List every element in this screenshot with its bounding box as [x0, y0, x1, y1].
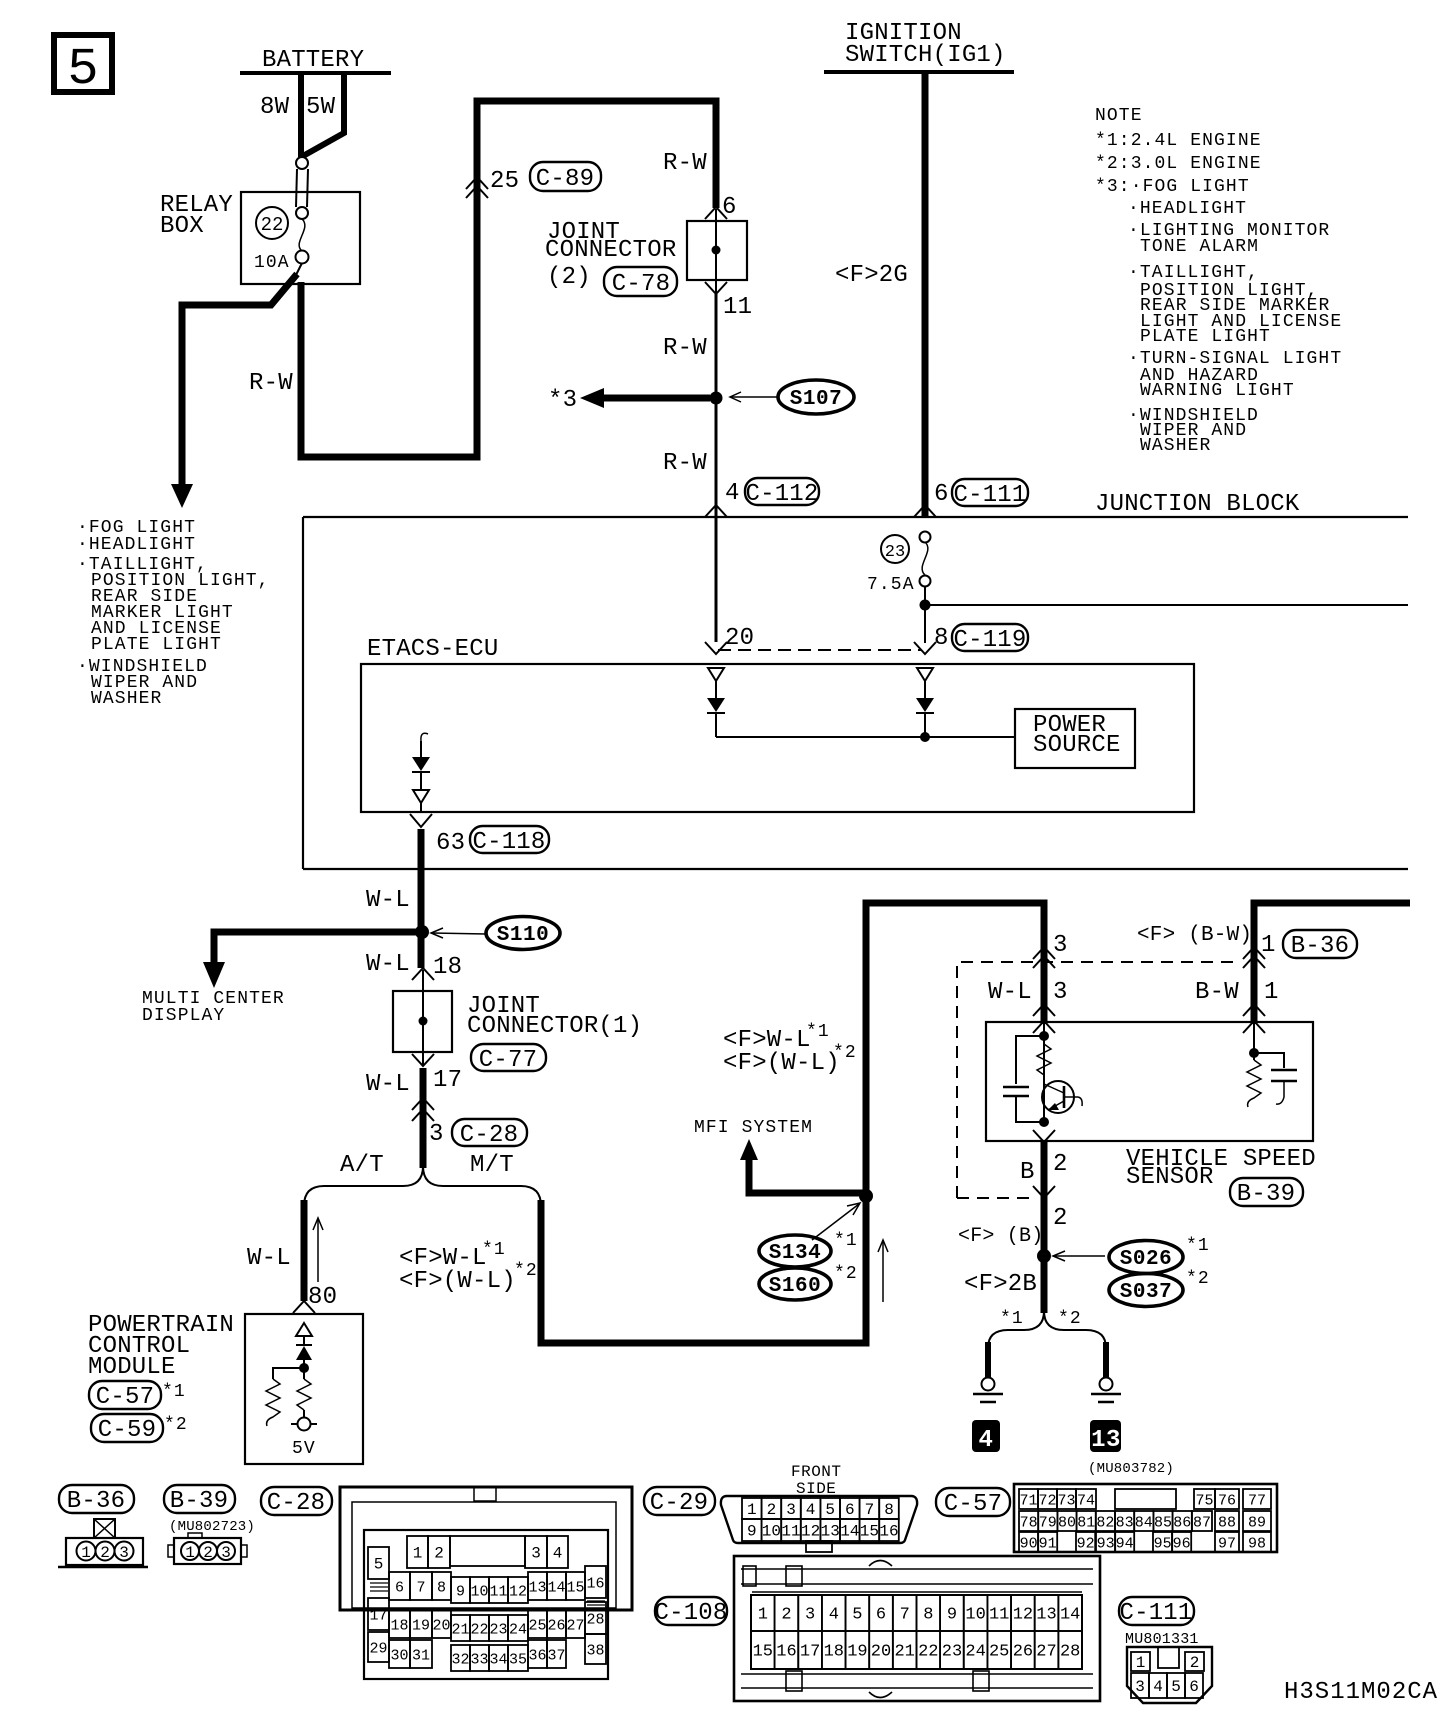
svg-text:81: 81 — [1077, 1515, 1095, 1532]
svg-text:*2: *2 — [164, 1415, 188, 1435]
svg-text:8: 8 — [934, 625, 949, 652]
chevron out of sensor bottom — [1033, 1130, 1055, 1142]
svg-text:26: 26 — [547, 1618, 565, 1635]
svg-text:6: 6 — [845, 1501, 855, 1519]
svg-text:WASHER: WASHER — [91, 689, 162, 709]
svg-text:13: 13 — [528, 1580, 546, 1597]
svg-text:*2: *2 — [833, 1043, 857, 1063]
connector stadium C-89 — [530, 162, 601, 191]
svg-text:PLATE LIGHT: PLATE LIGHT — [1140, 327, 1271, 347]
sensor transistor — [1042, 1081, 1082, 1113]
svg-text:5: 5 — [825, 1501, 835, 1519]
svg-text:B-36: B-36 — [1291, 933, 1349, 960]
svg-text:<F>(W-L): <F>(W-L) — [723, 1050, 840, 1077]
svg-text:25: 25 — [490, 168, 519, 195]
svg-text:3: 3 — [1053, 932, 1068, 959]
svg-text:MODULE: MODULE — [88, 1354, 176, 1381]
svg-text:9: 9 — [456, 1584, 465, 1601]
ground symbol right — [1100, 1378, 1113, 1391]
svg-text:27: 27 — [1036, 1643, 1056, 1662]
connector stadium C-29 — [644, 1487, 715, 1515]
svg-text:3: 3 — [531, 1545, 541, 1563]
svg-text:B-W: B-W — [1195, 979, 1239, 1006]
svg-text:W-L: W-L — [988, 979, 1032, 1006]
connector stadium C-57 — [89, 1381, 161, 1409]
power source box — [1015, 709, 1135, 768]
svg-text:14: 14 — [547, 1580, 565, 1597]
ETACS-ECU box — [361, 664, 1194, 812]
chevron inside sensor W-L — [1033, 1021, 1055, 1033]
svg-text:14: 14 — [1060, 1606, 1080, 1625]
chevron into PCM — [293, 1301, 315, 1313]
splice S037 oval — [1109, 1274, 1183, 1307]
fuse 23 wavy element — [922, 542, 928, 575]
svg-text:W-L: W-L — [366, 951, 410, 978]
svg-text:*1: *1 — [482, 1240, 506, 1260]
svg-text:B-39: B-39 — [1237, 1181, 1295, 1208]
arrow into ETACS pin 20 — [705, 642, 727, 654]
svg-text:R-W: R-W — [249, 370, 293, 397]
svg-text:·TAILLIGHT,: ·TAILLIGHT, — [1128, 263, 1259, 283]
svg-text:17: 17 — [800, 1643, 820, 1662]
joint connector 2 box — [687, 221, 747, 280]
svg-text:23: 23 — [942, 1643, 962, 1662]
double chevrons at dashed boundary B-W — [1243, 947, 1265, 968]
svg-text:C-57: C-57 — [96, 1384, 154, 1411]
fuse number circle 22 — [256, 207, 288, 239]
svg-text:3: 3 — [786, 1501, 796, 1519]
svg-text:73: 73 — [1057, 1493, 1075, 1510]
svg-text:2: 2 — [434, 1545, 444, 1563]
svg-text:1: 1 — [1264, 979, 1279, 1006]
svg-text:6: 6 — [876, 1606, 886, 1625]
svg-text:79: 79 — [1039, 1515, 1057, 1532]
C-28 pin cells — [368, 1536, 606, 1671]
svg-text:80: 80 — [308, 1284, 337, 1311]
svg-text:13: 13 — [821, 1523, 840, 1541]
wire ignition IG1 — [922, 72, 929, 518]
connector stadium C-108 — [655, 1597, 727, 1625]
svg-text:31: 31 — [412, 1648, 430, 1665]
svg-text:·HEADLIGHT: ·HEADLIGHT — [77, 535, 196, 555]
connector stadium C-78 — [604, 267, 677, 296]
svg-text:1: 1 — [747, 1501, 757, 1519]
PCM internal pull-up circuit — [266, 1323, 317, 1459]
svg-text:71: 71 — [1019, 1493, 1037, 1510]
svg-text:CONNECTOR(1): CONNECTOR(1) — [467, 1013, 642, 1040]
svg-text:S107: S107 — [790, 388, 842, 411]
svg-text:84: 84 — [1135, 1515, 1153, 1532]
svg-text:*1:2.4L ENGINE: *1:2.4L ENGINE — [1095, 131, 1262, 151]
svg-text:5: 5 — [67, 40, 98, 99]
svg-text:6: 6 — [395, 1580, 404, 1597]
ground reference square 13 — [1090, 1420, 1121, 1452]
joint connector 1 internal wire — [422, 970, 424, 1066]
svg-text:28: 28 — [586, 1612, 604, 1629]
svg-text:<F>2G: <F>2G — [835, 262, 908, 289]
svg-text:·HEADLIGHT: ·HEADLIGHT — [1128, 199, 1247, 219]
sensor capacitor left branch — [1016, 1036, 1044, 1084]
wire R-W from joint connector to junction block — [715, 294, 718, 642]
svg-text:89: 89 — [1248, 1515, 1266, 1532]
svg-text:36: 36 — [528, 1648, 546, 1665]
svg-text:R-W: R-W — [663, 450, 707, 477]
svg-text:2: 2 — [781, 1606, 791, 1625]
connector stadium B-36 bottom — [59, 1485, 134, 1513]
svg-text:3: 3 — [1053, 979, 1068, 1006]
wire to multi center display — [214, 932, 416, 964]
svg-text:C-111: C-111 — [1119, 1600, 1192, 1627]
svg-text:S026: S026 — [1120, 1248, 1172, 1271]
svg-text:28: 28 — [1060, 1643, 1080, 1662]
svg-text:15: 15 — [753, 1643, 773, 1662]
ground stub wire right — [1103, 1342, 1109, 1377]
fusible link bottom circle — [296, 207, 308, 219]
svg-text:C-78: C-78 — [612, 271, 670, 298]
svg-text:*2:3.0L ENGINE: *2:3.0L ENGINE — [1095, 154, 1262, 174]
svg-text:10: 10 — [762, 1523, 781, 1541]
svg-text:*2: *2 — [1058, 1309, 1082, 1329]
fusible link connector top circle — [296, 157, 308, 169]
svg-text:4: 4 — [829, 1606, 839, 1625]
splice S026 oval — [1109, 1241, 1183, 1274]
connector stadium C-28 bottom — [261, 1487, 332, 1515]
diode to pin 63 output — [412, 733, 430, 812]
svg-text:20: 20 — [432, 1618, 450, 1635]
chevron R-W wire crossing junction block — [705, 505, 727, 517]
svg-text:R-W: R-W — [663, 150, 707, 177]
svg-text:S160: S160 — [769, 1275, 821, 1298]
svg-text:2: 2 — [1053, 1205, 1068, 1232]
ground stub wire left — [985, 1342, 991, 1377]
A/T branch curve — [304, 1166, 423, 1206]
sensor internal left: wire — [1043, 1024, 1045, 1122]
svg-text:<F>2B: <F>2B — [964, 1271, 1037, 1298]
svg-text:90: 90 — [1020, 1536, 1038, 1553]
svg-text:27: 27 — [566, 1618, 584, 1635]
svg-text:78: 78 — [1020, 1515, 1038, 1532]
svg-text:1: 1 — [1136, 1654, 1146, 1672]
svg-text:(2): (2) — [547, 264, 591, 291]
svg-text:21: 21 — [451, 1622, 469, 1639]
svg-text:2: 2 — [767, 1501, 777, 1519]
fuse 23 top circle — [920, 532, 931, 543]
svg-text:2: 2 — [100, 1544, 110, 1562]
diode from pin 20 — [707, 668, 725, 737]
svg-text:24: 24 — [965, 1643, 985, 1662]
svg-text:C-59: C-59 — [98, 1417, 156, 1444]
splice S107 oval — [778, 380, 854, 414]
connector C-29 face view — [721, 1496, 917, 1552]
svg-text:12: 12 — [1013, 1606, 1033, 1625]
wire battery 8W drop — [298, 73, 304, 157]
svg-text:R-W: R-W — [663, 335, 707, 362]
svg-text:*2: *2 — [834, 1264, 858, 1284]
ground reference square 4 — [972, 1420, 1000, 1452]
svg-text:C-29: C-29 — [650, 1490, 708, 1517]
svg-text:SWITCH(IG1): SWITCH(IG1) — [845, 42, 1006, 69]
connector C-28 face view — [340, 1487, 632, 1679]
svg-text:20: 20 — [871, 1643, 891, 1662]
svg-text:C-118: C-118 — [472, 829, 545, 856]
svg-text:1: 1 — [413, 1545, 423, 1563]
svg-text:26: 26 — [1013, 1643, 1033, 1662]
svg-text:18: 18 — [390, 1618, 408, 1635]
chevron into sensor B-W — [1243, 1004, 1265, 1016]
svg-text:6: 6 — [1189, 1678, 1199, 1696]
svg-text:37: 37 — [547, 1648, 565, 1665]
svg-text:7: 7 — [865, 1501, 875, 1519]
svg-text:20: 20 — [725, 625, 754, 652]
svg-text:4: 4 — [1153, 1678, 1163, 1696]
svg-text:23: 23 — [885, 543, 905, 562]
MFI system stub wire — [740, 1139, 758, 1160]
relay box outline — [241, 192, 360, 284]
svg-text:NOTE: NOTE — [1095, 106, 1143, 126]
svg-text:*3:·FOG LIGHT: *3:·FOG LIGHT — [1095, 177, 1250, 197]
svg-text:BATTERY: BATTERY — [262, 47, 364, 74]
svg-text:<F> (B-W): <F> (B-W) — [1137, 924, 1252, 947]
connector stadium C-118 — [470, 826, 549, 853]
svg-text:76: 76 — [1218, 1493, 1236, 1510]
svg-text:7: 7 — [416, 1580, 425, 1597]
svg-text:S037: S037 — [1120, 1281, 1172, 1304]
chevron out of ETACS pin 63 — [410, 814, 432, 827]
arrow from S134 to splice — [812, 1204, 859, 1240]
svg-text:13: 13 — [1091, 1427, 1121, 1454]
svg-text:8W: 8W — [260, 94, 290, 121]
wire W-L A/T branch — [301, 1200, 308, 1301]
svg-text:3: 3 — [429, 1121, 444, 1148]
battery bus line — [240, 71, 391, 75]
connector stadium B-36 — [1283, 930, 1357, 958]
svg-text:1: 1 — [1261, 932, 1276, 959]
svg-text:3: 3 — [805, 1606, 815, 1625]
svg-text:S134: S134 — [769, 1242, 821, 1265]
svg-text:34: 34 — [489, 1652, 507, 1669]
double chevrons at dashed boundary W-L — [1033, 947, 1055, 968]
svg-text:16: 16 — [586, 1576, 604, 1593]
svg-text:72: 72 — [1038, 1493, 1056, 1510]
svg-text:MFI SYSTEM: MFI SYSTEM — [694, 1118, 813, 1138]
splice junction dot B wire — [1037, 1249, 1051, 1263]
svg-text:<F>(W-L): <F>(W-L) — [399, 1268, 516, 1295]
joint connector 2 internal wire — [715, 209, 717, 294]
diode from pin 8 — [916, 668, 934, 737]
chevron inside sensor B-W — [1243, 1021, 1265, 1033]
svg-text:C-28: C-28 — [460, 1122, 518, 1149]
svg-text:93: 93 — [1097, 1536, 1115, 1553]
svg-text:22: 22 — [261, 214, 284, 236]
direction arrow A/T — [317, 1220, 319, 1282]
svg-text:5: 5 — [852, 1606, 862, 1625]
svg-text:C-57: C-57 — [944, 1491, 1002, 1518]
svg-text:3: 3 — [221, 1544, 231, 1562]
svg-text:ETACS-ECU: ETACS-ECU — [367, 636, 498, 663]
svg-text:C-112: C-112 — [745, 481, 818, 508]
svg-text:13: 13 — [1036, 1606, 1056, 1625]
svg-text:4: 4 — [553, 1545, 563, 1563]
svg-text:*1: *1 — [1000, 1309, 1024, 1329]
svg-text:16: 16 — [776, 1643, 796, 1662]
svg-text:10: 10 — [965, 1606, 985, 1625]
svg-text:PLATE LIGHT: PLATE LIGHT — [91, 635, 222, 655]
svg-text:30: 30 — [390, 1648, 408, 1665]
svg-text:19: 19 — [847, 1643, 867, 1662]
splice node S107 junction dot — [710, 392, 723, 405]
fuse 23 bottom circle — [920, 576, 931, 587]
sensor resistor right — [1247, 1060, 1261, 1107]
svg-text:BOX: BOX — [160, 213, 204, 240]
sensor resistor left — [1037, 1044, 1051, 1075]
svg-text:18: 18 — [824, 1643, 844, 1662]
svg-text:85: 85 — [1154, 1515, 1172, 1532]
svg-text:97: 97 — [1218, 1536, 1236, 1553]
svg-text:DISPLAY: DISPLAY — [142, 1006, 225, 1026]
connector stadium B-39 — [1230, 1178, 1303, 1206]
svg-text:3: 3 — [1135, 1678, 1145, 1696]
wire from fuse to fog-light feed — [296, 263, 302, 275]
svg-text:6: 6 — [934, 481, 949, 508]
fog light load list — [77, 518, 270, 709]
page number box 5 — [54, 35, 112, 99]
svg-text:18: 18 — [433, 954, 462, 981]
connector stadium C-59 — [91, 1414, 163, 1442]
svg-text:14: 14 — [840, 1523, 859, 1541]
svg-text:80: 80 — [1058, 1515, 1076, 1532]
svg-text:SOURCE: SOURCE — [1033, 732, 1121, 759]
arrow into ETACS pin 8 — [914, 642, 936, 654]
direction arrow M/T — [882, 1242, 884, 1302]
wire B below sensor — [1041, 1141, 1048, 1313]
svg-text:C-119: C-119 — [953, 627, 1026, 654]
splice S160 oval — [759, 1268, 831, 1300]
svg-text:2: 2 — [203, 1544, 213, 1562]
svg-text:8: 8 — [923, 1606, 933, 1625]
svg-text:10A: 10A — [254, 253, 290, 273]
svg-text:5V: 5V — [292, 1439, 316, 1459]
connector stadium C-111 bottom — [1119, 1597, 1194, 1625]
wire B-W top run — [1254, 903, 1410, 1024]
svg-text:95: 95 — [1154, 1536, 1172, 1553]
junction block outline — [303, 516, 1408, 518]
svg-text:2: 2 — [1190, 1654, 1200, 1672]
connector stadium C-57 bottom — [936, 1488, 1010, 1516]
svg-text:98: 98 — [1248, 1536, 1266, 1553]
ground symbol left — [982, 1378, 995, 1391]
svg-text:5: 5 — [374, 1556, 384, 1574]
svg-text:*1: *1 — [806, 1022, 830, 1042]
connector stadium C-111 — [952, 479, 1028, 506]
connector stadium B-39 bottom — [164, 1485, 235, 1513]
svg-text:*3: *3 — [548, 387, 577, 414]
chevron into joint connector 2 — [705, 207, 727, 219]
svg-text:75: 75 — [1195, 1493, 1213, 1510]
dashed wire inside junction block — [718, 649, 921, 651]
svg-text:4: 4 — [725, 480, 740, 507]
svg-text:A/T: A/T — [340, 1152, 384, 1179]
svg-text:22: 22 — [470, 1622, 488, 1639]
svg-text:3: 3 — [119, 1544, 129, 1562]
chevron into joint connector 1 — [412, 968, 434, 980]
svg-text:CONNECTOR: CONNECTOR — [545, 237, 676, 264]
wire M/T branch long run — [541, 903, 1044, 1343]
wire joining diodes to power source — [716, 736, 1015, 738]
svg-text:(MU802723): (MU802723) — [169, 1519, 255, 1535]
svg-text:15: 15 — [860, 1523, 879, 1541]
svg-text:C-111: C-111 — [953, 482, 1026, 509]
arrowhead fog-light feed — [171, 484, 193, 508]
svg-text:77: 77 — [1248, 1493, 1266, 1510]
chevron out of joint connector 1 — [412, 1054, 434, 1066]
junction dot on IG1 branch — [920, 600, 931, 611]
svg-text:1: 1 — [81, 1544, 91, 1562]
wire W-L from ETACS — [418, 829, 425, 968]
svg-text:21: 21 — [894, 1643, 914, 1662]
svg-text:*1: *1 — [834, 1231, 858, 1251]
svg-text:11: 11 — [989, 1606, 1009, 1625]
svg-text:25: 25 — [528, 1618, 546, 1635]
svg-text:9: 9 — [947, 1606, 957, 1625]
wire relay to joint connector C-78 — [301, 101, 716, 457]
svg-text:92: 92 — [1077, 1536, 1095, 1553]
svg-text:11: 11 — [489, 1584, 507, 1601]
svg-text:(MU803782): (MU803782) — [1088, 1461, 1174, 1477]
svg-text:JUNCTION BLOCK: JUNCTION BLOCK — [1095, 491, 1300, 518]
chevron out of joint connector 2 — [705, 282, 727, 294]
svg-text:25: 25 — [989, 1643, 1009, 1662]
arrow from S026 to splice — [1054, 1255, 1105, 1257]
svg-text:SENSOR: SENSOR — [1126, 1164, 1214, 1191]
svg-text:16: 16 — [879, 1523, 898, 1541]
svg-text:5: 5 — [1171, 1678, 1181, 1696]
svg-text:12: 12 — [509, 1584, 527, 1601]
svg-text:B: B — [1020, 1159, 1035, 1186]
svg-text:23: 23 — [489, 1622, 507, 1639]
svg-text:94: 94 — [1116, 1536, 1134, 1553]
connector stadium C-28 — [452, 1119, 527, 1146]
svg-text:B-36: B-36 — [67, 1488, 125, 1515]
splice S110 oval — [486, 917, 560, 950]
svg-text:H3S11M02CA: H3S11M02CA — [1284, 1679, 1438, 1706]
svg-text:W-L: W-L — [247, 1245, 291, 1272]
sensor internal right: wire — [1253, 1024, 1255, 1060]
wire W-L to transmission split — [420, 1068, 427, 1168]
svg-text:63: 63 — [436, 830, 465, 857]
svg-text:*1: *1 — [1186, 1236, 1210, 1256]
svg-text:M/T: M/T — [470, 1152, 514, 1179]
connector C-57 face view — [1014, 1484, 1277, 1553]
svg-text:W-L: W-L — [366, 1071, 410, 1098]
wire fuse 23 to ETACS — [924, 587, 926, 643]
svg-text:29: 29 — [369, 1641, 387, 1658]
svg-text:C-89: C-89 — [536, 166, 594, 193]
svg-text:38: 38 — [586, 1643, 604, 1660]
svg-text:11: 11 — [723, 294, 752, 321]
svg-text:11: 11 — [781, 1523, 800, 1541]
chevron into sensor W-L — [1033, 1004, 1055, 1016]
connector B-39 face view — [168, 1533, 247, 1564]
svg-text:*2: *2 — [514, 1261, 538, 1281]
svg-text:74: 74 — [1077, 1493, 1095, 1510]
ground split curves — [988, 1311, 1044, 1348]
svg-text:32: 32 — [451, 1652, 469, 1669]
svg-text:4: 4 — [979, 1427, 994, 1454]
connector C-108 face view — [734, 1556, 1100, 1701]
svg-text:33: 33 — [470, 1652, 488, 1669]
junction dot MFI / M/T — [859, 1189, 873, 1203]
svg-text:91: 91 — [1039, 1536, 1057, 1553]
